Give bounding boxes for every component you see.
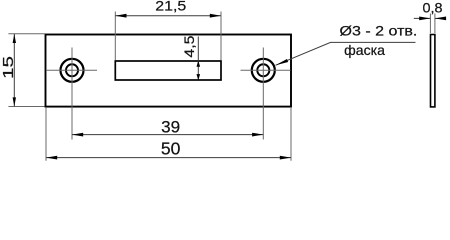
dimension 50: value text (161, 139, 181, 159)
dimension 39: arrow right (252, 133, 263, 137)
dimension 50: arrow right (280, 156, 291, 160)
dimension 0,8: dimension line right segment (435, 17, 442, 19)
leader line to right hole (276, 42, 416, 65)
svg-text:Ø3 - 2 отв.: Ø3 - 2 отв. (340, 24, 418, 39)
hole left: horizontal centerline (46, 69, 97, 71)
dimension 39: value text (161, 118, 180, 137)
svg-text:фаска: фаска (344, 43, 385, 58)
leader arrowhead (276, 59, 289, 65)
slot (rectangular cutout) (115, 61, 221, 80)
hole right: inner circle Ø3 (257, 64, 269, 76)
svg-text:21,5: 21,5 (155, 0, 186, 13)
dimension 0,8: arrow pointing left (435, 17, 446, 21)
hole right: horizontal centerline (241, 69, 291, 71)
side view: thin plate section (431, 35, 435, 107)
dimension 0,8: extension line left (429, 14, 431, 34)
dimension 21,5: arrow right (210, 14, 221, 18)
hole left: countersink outer circle (61, 59, 84, 82)
svg-text:39: 39 (161, 118, 180, 137)
dimension 4,5: value text (rotated) (181, 35, 197, 57)
svg-text:0,8: 0,8 (423, 1, 443, 17)
dimension 15: dimension line (13, 34, 15, 107)
svg-text:15: 15 (0, 56, 17, 79)
dimension 0,8: extension line right (434, 14, 436, 34)
hole left: inner circle Ø3 (66, 64, 78, 76)
hole right: vertical centerline / extension for 39 (262, 48, 264, 140)
dimension 15: extension line bottom (8, 106, 44, 108)
hole right: countersink outer circle (252, 59, 275, 82)
dimension 50: extension line right (290, 107, 292, 161)
dimension 0,8: arrow pointing right (419, 17, 430, 21)
dimension 15: value text (rotated) (0, 56, 17, 79)
leader note line 1: Ø3 - 2 отв. (340, 24, 418, 39)
dimension 50: dimension line (46, 157, 291, 159)
leader note line 2: фаска (344, 43, 385, 58)
dimension 21,5: arrow left (115, 14, 126, 18)
dimension 21,5: extension line left (114, 12, 116, 61)
dimension 39: dimension line (72, 134, 263, 136)
dimension 15: extension line top (8, 33, 44, 35)
plate outline (front view) (46, 35, 292, 107)
dimension 4,5: arrow up (197, 61, 201, 67)
svg-text:50: 50 (161, 139, 181, 159)
svg-text:4,5: 4,5 (181, 35, 197, 57)
dimension 15: arrow down (13, 97, 16, 106)
hole left: vertical centerline / extension for 39 (71, 48, 73, 140)
dimension 0,8: value text (423, 1, 443, 17)
dimension 50: extension line left (45, 107, 47, 161)
dimension 15: arrow up (13, 34, 16, 43)
dimension 0,8: dimension line left segment (414, 17, 431, 19)
dimension 50: arrow left (46, 156, 57, 160)
dimension 4,5: arrow down (197, 74, 201, 80)
dimension 39: arrow left (72, 133, 83, 137)
dimension 4,5: dimension/extension vertical line (197, 37, 199, 80)
dimension 21,5: dimension line (115, 15, 221, 17)
dimension 21,5: extension line right (220, 12, 222, 61)
dimension 21,5: value text (155, 0, 186, 13)
